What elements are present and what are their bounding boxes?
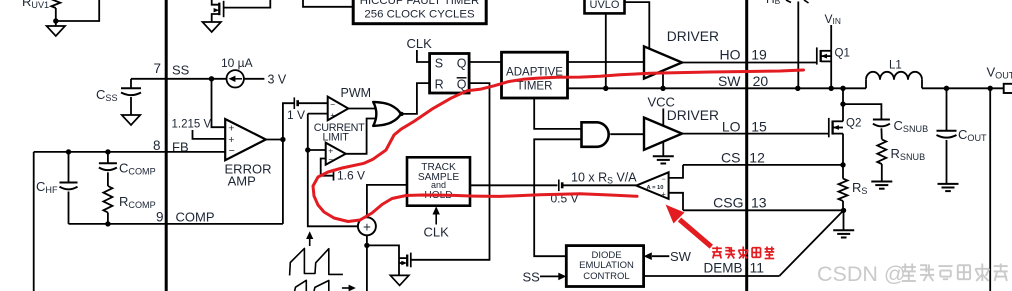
svg-text:+: + [661, 190, 666, 199]
svg-text:DEMB: DEMB [704, 260, 743, 275]
wire uvlo bottom to SW [605, 13, 607, 88]
pin 12 CS [683, 164, 747, 166]
svg-text:EMULATION: EMULATION [579, 260, 634, 271]
node error amp output junction [280, 137, 285, 142]
red arrow to cs amp [680, 220, 712, 247]
wire into hiccup timer box [303, 0, 353, 7]
hiccup fault timer box (cut at top) [353, 0, 486, 24]
wire junction right and up to top edge [56, 0, 99, 21]
svg-text:20: 20 [753, 73, 769, 89]
transistor M1 top-left (gate right) [212, 0, 220, 5]
pin 13 CSG [683, 209, 747, 211]
diode emulation control box [566, 246, 643, 287]
svg-text:DRIVER: DRIVER [667, 29, 719, 44]
wire outer feedback vertical [33, 152, 35, 291]
SW line [568, 87, 867, 89]
or gate [373, 102, 401, 126]
svg-text:DRIVER: DRIVER [667, 108, 719, 123]
CLK arrow into track/hold [435, 213, 437, 225]
svg-text:CS: CS [721, 150, 740, 166]
svg-text:−: − [661, 174, 666, 183]
ground (signal) under RUV1 [55, 21, 57, 26]
svg-text:+: + [363, 219, 371, 234]
svg-text:256 CLOCK CYCLES: 256 CLOCK CYCLES [364, 8, 475, 20]
capacitor CSNUB [843, 104, 881, 119]
ground (signal) under CSS [122, 115, 141, 125]
wire to 3V [244, 78, 265, 80]
wire cs amp - input from CS [669, 165, 683, 178]
svg-text:VOUT: VOUT [987, 65, 1012, 81]
and gate [582, 122, 609, 147]
svg-text:Q1: Q1 [835, 48, 850, 60]
wire DEC to and bottom input [534, 139, 581, 256]
svg-text:L1: L1 [889, 59, 902, 71]
node below summing [364, 243, 369, 248]
svg-text:PWM: PWM [341, 86, 372, 100]
svg-text:SW: SW [718, 73, 741, 89]
svg-text:3 V: 3 V [268, 73, 287, 87]
wire and output to LO driver [610, 133, 644, 135]
red text chai fen fang da qi (differential amplifier) [712, 247, 722, 249]
node CSNUB branch [840, 101, 845, 106]
svg-text:12: 12 [749, 150, 765, 166]
svg-text:RCOMP: RCOMP [119, 194, 156, 210]
battery 0.5 V [558, 180, 560, 192]
summing node circle [358, 217, 376, 235]
svg-text:10 x RS V/A: 10 x RS V/A [571, 170, 637, 185]
svg-text:VIN: VIN [825, 12, 841, 26]
wire adaptive bottom to AND top input [534, 98, 581, 129]
sr latch box [430, 54, 470, 94]
battery 1.6 V on CL - input [321, 159, 333, 176]
ground (earth) under LO driver [653, 155, 674, 157]
wire DEMB diagonal to RS [779, 210, 843, 276]
wire uvlo to HO driver top [625, 2, 650, 49]
transistor M2 ramp reset (gate right) [406, 255, 408, 267]
current source 10uA [227, 70, 244, 87]
node SS junction [209, 76, 214, 81]
wire latch Qbar down to M2 gate [411, 83, 490, 260]
wire error amp output [266, 139, 283, 141]
svg-text:HICCUP FAULT TIMER: HICCUP FAULT TIMER [360, 0, 479, 7]
wire COMP line [69, 223, 283, 225]
ground (earth) under COUT [938, 183, 959, 185]
wire CSG external [747, 209, 844, 211]
svg-text:19: 19 [751, 47, 767, 63]
op-amp error amp [225, 119, 266, 160]
svg-text:Q: Q [457, 78, 467, 92]
svg-text:11: 11 [750, 259, 765, 275]
transistor Q2 [828, 118, 830, 137]
svg-text:9: 9 [156, 210, 164, 225]
resistor RSNUB [877, 139, 886, 164]
svg-text:COUT: COUT [958, 127, 987, 143]
battery 1 V [293, 97, 295, 109]
ground (signal) under M2 [390, 275, 409, 285]
svg-text:SS: SS [172, 63, 190, 78]
wire PWM output to OR [348, 108, 377, 110]
wire SS to error amp + [212, 79, 226, 127]
wire up to 1V battery and down to COMP [283, 103, 294, 139]
svg-text:CSS: CSS [96, 87, 118, 103]
sawtooth icon 2 (cut at bottom) with right arrow [295, 280, 329, 291]
wire SS pin line [131, 78, 226, 80]
svg-text:CLK: CLK [424, 225, 450, 240]
svg-text:+: + [330, 110, 335, 120]
svg-text:13: 13 [751, 194, 767, 210]
svg-text:S: S [435, 56, 443, 70]
adaptive timer box [502, 52, 568, 98]
svg-text:10 µA: 10 µA [221, 56, 253, 70]
wire adaptive to HO driver [568, 61, 645, 63]
sawtooth ramp icon with up arrow [309, 237, 311, 247]
node junction under RUV1 [53, 18, 58, 23]
svg-text:Q: Q [457, 56, 467, 70]
ground (earth) under RS [843, 210, 845, 230]
svg-text:LO: LO [722, 119, 741, 135]
svg-text:CHF: CHF [36, 179, 58, 195]
wire OR output to latch R [401, 83, 430, 114]
wire latch Q to adaptive timer [469, 61, 501, 63]
svg-text:CSNUB: CSNUB [894, 118, 929, 134]
node RS bottom junction [841, 208, 846, 213]
IC boundary left border [165, 0, 168, 291]
svg-text:RUV1: RUV1 [22, 0, 49, 10]
svg-text:Q2: Q2 [846, 117, 861, 129]
svg-text:R: R [435, 78, 444, 92]
pin 15 LO [682, 133, 829, 135]
wire CLK to latch S [417, 50, 430, 62]
wire cs amp + input from CSG [669, 193, 683, 211]
capacitor COUT [946, 88, 948, 131]
svg-text:CONTROL: CONTROL [583, 271, 629, 282]
svg-text:UVLO: UVLO [590, 0, 620, 11]
svg-text:SW: SW [670, 249, 692, 264]
pin 19 HO [682, 62, 817, 64]
ground (earth) under RSNUB [871, 181, 892, 183]
svg-text:1.215 V: 1.215 V [172, 119, 212, 131]
svg-text:A = 10: A = 10 [646, 185, 663, 191]
IC boundary right border [745, 0, 748, 291]
wire SW to VOUT [922, 87, 1004, 89]
svg-text:RS: RS [852, 180, 867, 196]
ground (signal) under M1 [202, 22, 221, 32]
wire summing down [366, 235, 368, 291]
wire VOUT down [989, 88, 991, 291]
cs amp A=10 (points left) [636, 172, 668, 199]
svg-text:7: 7 [153, 61, 161, 76]
svg-text:1.6 V: 1.6 V [337, 169, 365, 183]
svg-text:COMP: COMP [176, 210, 215, 225]
svg-text:+: + [228, 123, 234, 135]
wire CS external [747, 164, 843, 166]
wire CL output to OR [346, 119, 378, 154]
svg-text:AMP: AMP [228, 173, 256, 188]
svg-text:TIMER: TIMER [517, 81, 553, 93]
svg-text:−: − [330, 99, 335, 109]
wire ramp to PWM + [308, 113, 328, 115]
resistor RUV1 (cut at top) [51, 0, 60, 8]
wire RUV1 to junction [55, 8, 57, 21]
svg-text:CSDN @: CSDN @ [817, 262, 906, 286]
red annotation freehand curve [313, 70, 804, 222]
pin 11 DEMB [644, 275, 779, 277]
wire FB line [34, 151, 226, 153]
svg-text:LIMIT: LIMIT [323, 132, 350, 144]
svg-text:1 V: 1 V [287, 108, 305, 122]
svg-text:CLK: CLK [407, 36, 433, 51]
resistor RS [840, 162, 845, 167]
wire summing to track/hold [367, 185, 407, 217]
wire track/hold output with 0.5V battery [470, 184, 557, 186]
svg-text:15: 15 [751, 119, 767, 135]
svg-text:CCOMP: CCOMP [119, 161, 156, 177]
svg-text:8: 8 [153, 138, 161, 153]
uvlo box (cut at top) [585, 0, 625, 13]
wire CL + input [308, 149, 326, 151]
wire to ramp reset mosfet [367, 245, 399, 275]
node CL+ junction [305, 147, 310, 152]
svg-text:−: − [229, 145, 235, 157]
svg-text:HO: HO [720, 47, 741, 63]
svg-text:RSNUB: RSNUB [891, 146, 926, 162]
svg-text:and: and [431, 180, 446, 190]
svg-text:−: − [328, 154, 333, 164]
svg-text:CSG: CSG [713, 194, 743, 210]
svg-text:SS: SS [523, 270, 541, 285]
track sample and hold box [407, 157, 470, 205]
capacitor CSS [130, 79, 132, 89]
svg-text:HB: HB [766, 0, 781, 6]
wire HO driver return to SW [662, 71, 664, 89]
